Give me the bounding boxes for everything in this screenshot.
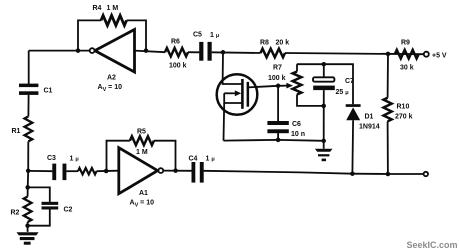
- svg-text:R8: R8: [260, 40, 269, 47]
- svg-text:R2: R2: [11, 210, 20, 217]
- svg-text:100 k: 100 k: [268, 75, 286, 82]
- svg-text:1N914: 1N914: [359, 124, 380, 131]
- svg-text:1 μ: 1 μ: [206, 156, 215, 163]
- svg-text:100 k: 100 k: [169, 63, 187, 70]
- svg-text:C1: C1: [44, 88, 53, 95]
- svg-text:1 M: 1 M: [107, 5, 119, 12]
- svg-text:R1: R1: [12, 128, 21, 135]
- svg-text:30 k: 30 k: [400, 65, 414, 72]
- svg-text:25 μ: 25 μ: [336, 89, 349, 96]
- svg-text:1 μ: 1 μ: [70, 156, 79, 163]
- svg-text:+5 V: +5 V: [432, 53, 447, 60]
- svg-text:C5: C5: [193, 32, 202, 39]
- svg-text:D1: D1: [365, 114, 374, 121]
- svg-text:R7: R7: [273, 65, 282, 72]
- svg-text:1 M: 1 M: [136, 149, 148, 156]
- svg-text:C3: C3: [47, 155, 56, 162]
- svg-text:R4: R4: [93, 5, 102, 12]
- svg-text:C2: C2: [64, 207, 73, 214]
- svg-text:SeekIC.com: SeekIC.com: [407, 240, 458, 250]
- svg-text:270 k: 270 k: [395, 114, 413, 121]
- svg-text:R5: R5: [137, 129, 146, 136]
- svg-text:C4: C4: [189, 156, 198, 163]
- svg-text:1 μ: 1 μ: [210, 32, 219, 39]
- svg-text:R6: R6: [171, 39, 180, 46]
- svg-text:R9: R9: [401, 40, 410, 47]
- svg-text:C7: C7: [345, 78, 354, 85]
- svg-text:A1: A1: [139, 190, 148, 197]
- svg-text:A2: A2: [107, 75, 116, 82]
- svg-text:20 k: 20 k: [276, 40, 290, 47]
- svg-text:10 n: 10 n: [291, 131, 305, 138]
- svg-text:C6: C6: [292, 121, 301, 128]
- svg-text:R10: R10: [397, 104, 410, 111]
